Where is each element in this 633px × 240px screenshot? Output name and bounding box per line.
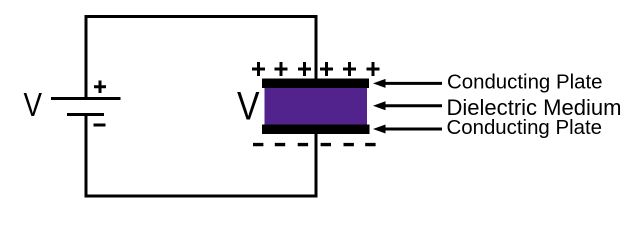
wire right upper	[315, 15, 318, 80]
battery V1 negative plate	[67, 113, 104, 116]
svg-text:V: V	[24, 86, 43, 123]
capacitor C1 dielectric medium	[265, 88, 368, 125]
svg-text:Conducting Plate: Conducting Plate	[447, 71, 603, 94]
battery V1 positive plate	[51, 97, 121, 100]
wire left lower	[85, 115, 88, 198]
wire top	[85, 15, 318, 18]
wire bottom	[85, 195, 318, 198]
capacitor C1 bottom conducting plate	[262, 125, 370, 135]
battery minus polarity mark	[94, 124, 106, 127]
positive charge row (+ + + + + +)	[252, 62, 380, 76]
wire right lower	[315, 134, 318, 198]
battery plus polarity mark	[94, 81, 106, 94]
negative charge row (- - - - - -)	[253, 143, 376, 146]
wire left upper	[85, 15, 88, 99]
arrow to dielectric medium	[373, 101, 442, 110]
svg-text:Conducting Plate: Conducting Plate	[447, 116, 603, 139]
svg-text:V: V	[237, 85, 260, 129]
capacitor C1 top conducting plate	[262, 79, 369, 89]
arrow to top conducting plate	[373, 79, 442, 88]
arrow to bottom conducting plate	[373, 125, 442, 134]
